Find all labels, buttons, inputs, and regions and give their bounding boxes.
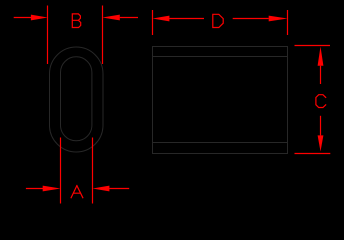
dimension C: bottom arrowhead [318, 135, 324, 151]
dimension A: left leader line [26, 188, 43, 190]
dimension C: bottom extension line [295, 153, 331, 155]
dimension A: left extension line [60, 138, 62, 204]
dimension B: right arrowhead [102, 15, 120, 21]
end view: outer obround outline [50, 47, 104, 152]
dimension D: right extension line [287, 10, 289, 35]
dimension A: left arrowhead [43, 186, 61, 192]
dimension A: right leader line [109, 188, 129, 190]
dimension D: right arrowhead [269, 16, 288, 22]
dimension B: right leader line [120, 17, 138, 19]
dimension B: label B [72, 14, 80, 28]
side view: body rectangle [153, 47, 288, 154]
dimension C: top extension line [295, 45, 331, 47]
dimension D: left dimension line [169, 18, 204, 20]
dimension C: upper dimension line [320, 66, 322, 84]
dimension D: left extension line [152, 10, 154, 35]
dimension B: left extension line [47, 6, 49, 65]
side view: bottom bore line [153, 142, 288, 144]
side view: top bore line [153, 56, 288, 58]
dimension B: left arrowhead [31, 15, 48, 21]
dimension C: lower dimension line [320, 116, 322, 136]
dimension A: right arrowhead [93, 186, 110, 192]
dimension C: top arrowhead [318, 47, 324, 66]
dimension D: right dimension line [233, 18, 269, 20]
dimension D: left arrowhead [153, 16, 170, 22]
dimension B: right extension line [102, 6, 104, 65]
dimension C: label C [316, 95, 326, 108]
dimension B: left leader line [14, 17, 32, 19]
end view: inner bore outline [61, 57, 92, 141]
dimension D: label D [213, 14, 223, 27]
dimension A: right extension line [92, 138, 94, 204]
dimension A: label A [71, 186, 83, 198]
